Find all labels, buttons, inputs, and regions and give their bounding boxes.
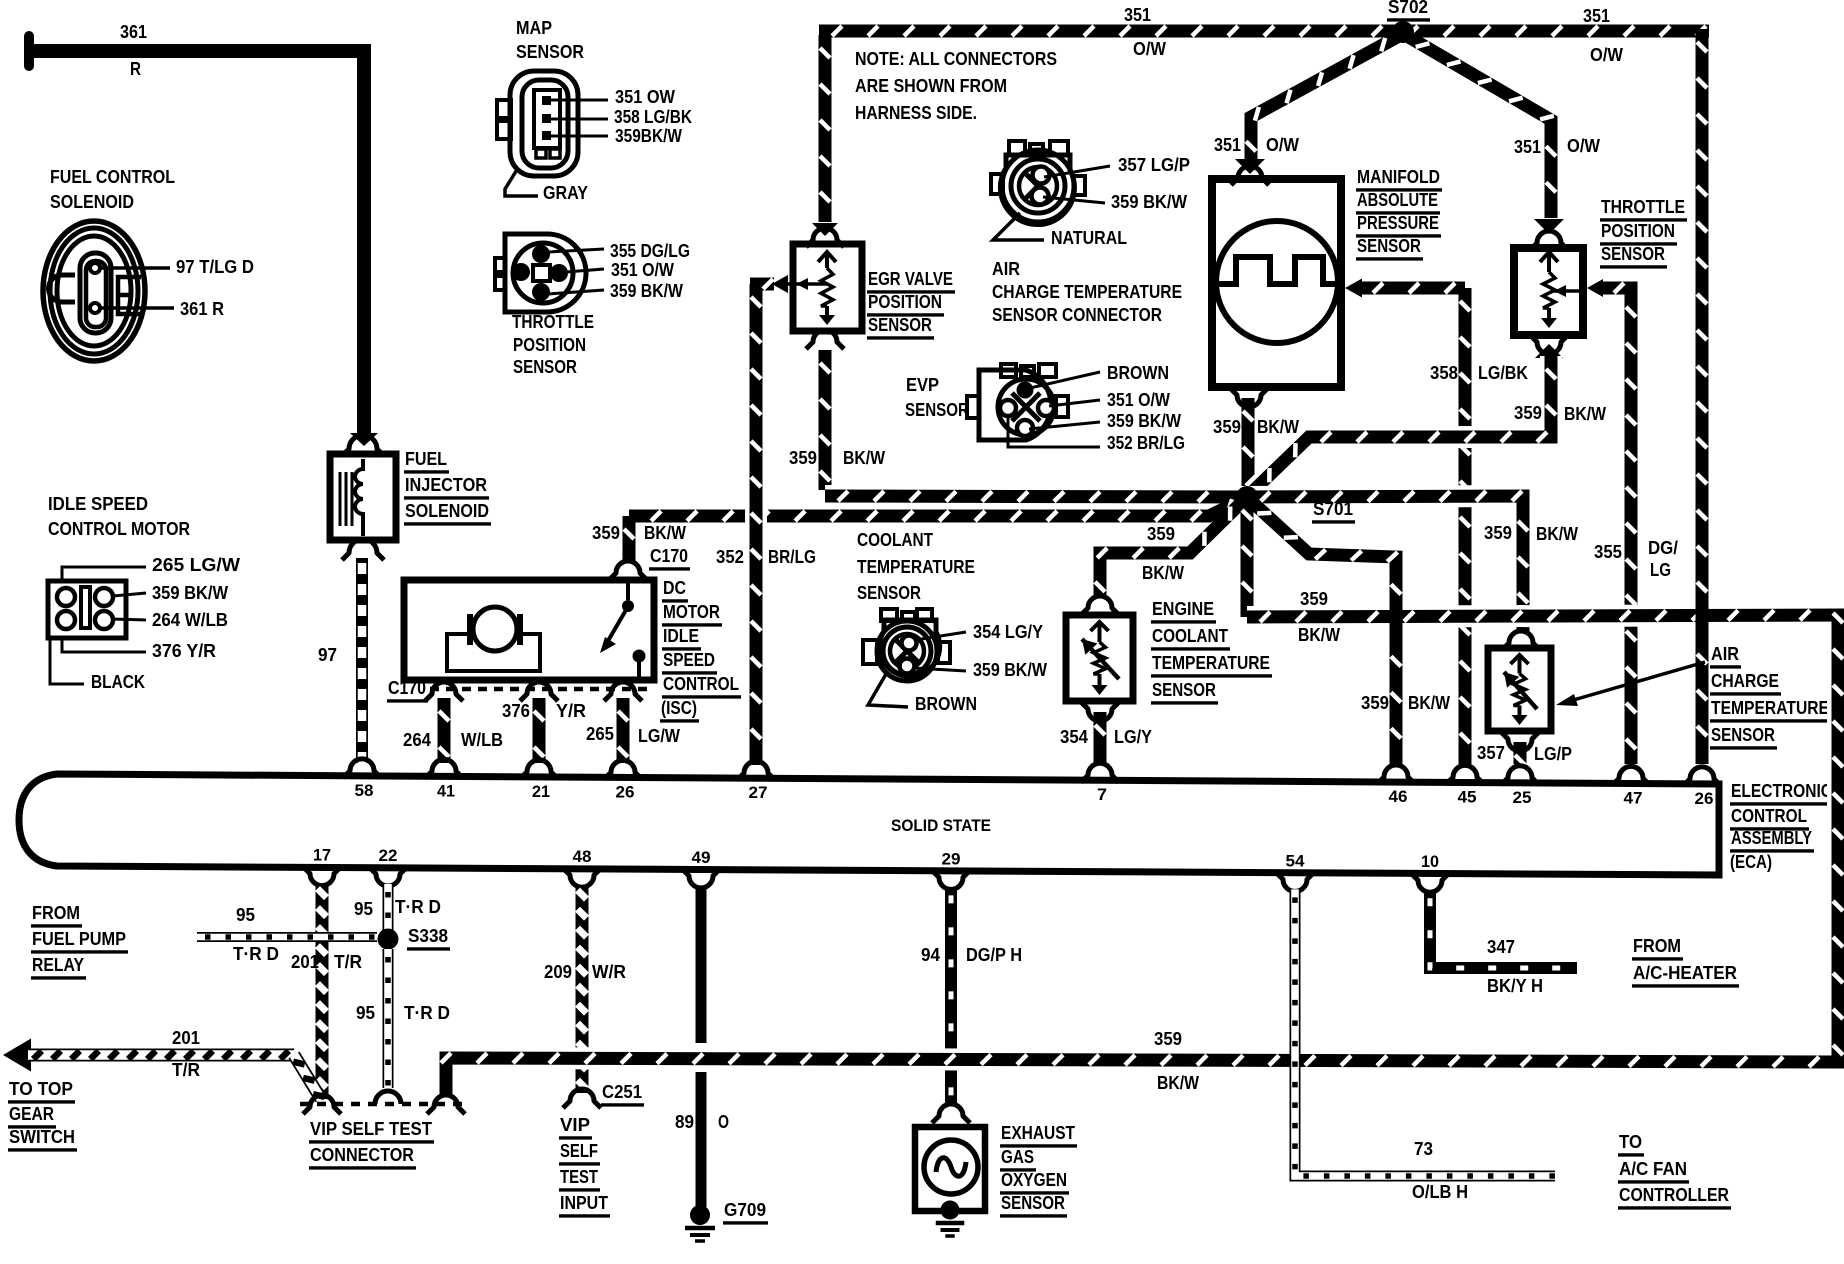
svg-text:22: 22: [379, 846, 398, 865]
ISC motor connector pins: [57, 588, 75, 606]
ISC motor symbol: [473, 607, 517, 651]
svg-text:POSITION: POSITION: [868, 292, 942, 312]
svg-text:27: 27: [749, 783, 768, 802]
svg-text:S702: S702: [1388, 0, 1428, 17]
svg-text:ASSEMBLY: ASSEMBLY: [1731, 828, 1812, 848]
svg-text:T·R D: T·R D: [233, 944, 279, 964]
svg-text:O/W: O/W: [1133, 39, 1166, 59]
MAP sensor connector body: [510, 71, 578, 176]
svg-text:351: 351: [1214, 135, 1241, 155]
svg-text:IDLE: IDLE: [663, 626, 699, 646]
wire 351 O/W arrow into TPS: [1534, 219, 1564, 234]
svg-text:355: 355: [1594, 542, 1622, 562]
svg-text:201: 201: [172, 1028, 200, 1048]
svg-text:COOLANT: COOLANT: [1152, 626, 1228, 646]
lead line 97 T/LG D: [100, 266, 170, 270]
wire 359 BK/W below EGR: [806, 330, 844, 349]
MAP connector key slots: [536, 149, 546, 158]
svg-text:265: 265: [586, 724, 614, 744]
svg-text:BK/W: BK/W: [644, 523, 686, 543]
ECA pin 7 connector: [1081, 763, 1119, 782]
svg-text:C251: C251: [602, 1082, 642, 1102]
ECA pin 47 connector: [1612, 766, 1650, 785]
svg-text:SENSOR: SENSOR: [1711, 725, 1775, 745]
svg-text:CONTROL: CONTROL: [663, 674, 739, 694]
VIP connector pin 95: [375, 1091, 401, 1104]
svg-text:LG/P: LG/P: [1534, 744, 1572, 764]
svg-text:SENSOR: SENSOR: [516, 42, 584, 62]
svg-text:(ECA): (ECA): [1730, 852, 1772, 872]
svg-text:NATURAL: NATURAL: [1051, 228, 1127, 248]
wire 209 W/R ECA pin 48 to C251: [576, 885, 589, 1093]
lead line 351 O/W: [566, 269, 604, 272]
svg-text:TO: TO: [1619, 1132, 1642, 1152]
wire 355 DG/LG to ECA pin 47: [1601, 288, 1631, 764]
ECA pin 17 connector: [303, 867, 341, 886]
svg-text:359 BK/W: 359 BK/W: [973, 660, 1047, 680]
svg-text:SPEED: SPEED: [663, 650, 715, 670]
svg-text:264 W/LB: 264 W/LB: [152, 610, 228, 630]
svg-text:73: 73: [1414, 1139, 1433, 1159]
wire 95 T-R D horizontal from fuel pump relay: [197, 932, 377, 942]
wire 352 BR/LG stub: [750, 278, 774, 291]
svg-text:ENGINE: ENGINE: [1152, 599, 1214, 619]
svg-text:359 BK/W: 359 BK/W: [610, 281, 683, 301]
svg-text:COOLANT: COOLANT: [857, 530, 933, 550]
svg-text:GAS: GAS: [1001, 1147, 1034, 1167]
wire 359 BK/W arrow up into TPS bottom: [1530, 335, 1568, 354]
svg-text:SOLID STATE: SOLID STATE: [891, 816, 991, 835]
svg-text:359: 359: [1147, 524, 1175, 544]
svg-text:CHARGE TEMPERATURE: CHARGE TEMPERATURE: [992, 282, 1182, 302]
svg-text:359 BK/W: 359 BK/W: [1111, 192, 1187, 212]
wire 201 T/R diagonal to VIP pin: [294, 1055, 321, 1099]
svg-text:SENSOR: SENSOR: [868, 315, 932, 335]
wire 359 BK/W below MAP sensor: [1230, 388, 1268, 407]
ACT connector side tabs: [991, 174, 1003, 194]
EVP connector pins: [1017, 382, 1034, 399]
wire 359 BK/W S701 to ACT sensor: [1247, 496, 1523, 633]
BROWN lead line coolant: [868, 674, 908, 707]
wire 357 LG/P to ECA pin 25: [1501, 732, 1539, 751]
svg-text:54: 54: [1286, 851, 1306, 870]
VIP connector pin 359: [427, 1095, 465, 1114]
EGR wiper arrow to wire 352: [772, 275, 788, 293]
air charge temp sensor connector body: [1009, 141, 1025, 155]
wire 95 T-R D S338 down to VIP connector: [383, 949, 394, 1088]
C170 pin connector 264: [425, 682, 463, 701]
wire 361 R vertical to fuel injector solenoid: [357, 44, 371, 433]
svg-text:VIP SELF TEST: VIP SELF TEST: [310, 1119, 432, 1139]
lead line 359 BK/W isc: [113, 593, 146, 596]
svg-text:T·R D: T·R D: [395, 897, 441, 917]
svg-text:29: 29: [942, 849, 961, 868]
svg-text:BROWN: BROWN: [915, 694, 977, 714]
wire 94 DG/P H ECA pin 29 to EGO sensor: [945, 887, 957, 1104]
svg-text:26: 26: [616, 782, 635, 801]
svg-text:AIR: AIR: [1711, 644, 1739, 664]
svg-text:MANIFOLD: MANIFOLD: [1357, 167, 1440, 187]
svg-text:209: 209: [544, 962, 572, 982]
svg-text:O: O: [718, 1112, 729, 1132]
svg-text:26: 26: [1695, 789, 1714, 808]
svg-text:SWITCH: SWITCH: [9, 1127, 75, 1147]
svg-text:358 LG/BK: 358 LG/BK: [614, 107, 692, 127]
fuel injector solenoid box: [330, 454, 396, 540]
svg-text:T/R: T/R: [172, 1060, 200, 1080]
svg-text:EVP: EVP: [906, 375, 939, 395]
svg-text:VIP: VIP: [560, 1115, 590, 1135]
ECA pin 27 connector: [737, 761, 775, 780]
wire 97 below injector: [342, 539, 384, 560]
svg-text:FUEL CONTROL: FUEL CONTROL: [50, 167, 175, 187]
svg-text:352: 352: [716, 547, 744, 567]
lead line 359 BK/W EVP: [1029, 422, 1100, 429]
svg-text:BR/LG: BR/LG: [768, 547, 816, 567]
svg-text:ABSOLUTE: ABSOLUTE: [1357, 190, 1438, 210]
svg-text:BK/W: BK/W: [1142, 563, 1184, 583]
svg-text:94: 94: [921, 945, 940, 965]
svg-text:359: 359: [1154, 1029, 1182, 1049]
svg-text:358: 358: [1430, 363, 1458, 383]
svg-text:351: 351: [1124, 5, 1151, 25]
svg-text:89: 89: [675, 1112, 694, 1132]
VIP connector pin 201: [303, 1095, 341, 1114]
svg-text:TO TOP: TO TOP: [9, 1079, 73, 1099]
svg-text:361: 361: [120, 22, 147, 42]
lead line 265 LG/W: [62, 567, 146, 581]
svg-text:41: 41: [437, 781, 455, 800]
EVP connector side tabs: [967, 396, 979, 418]
svg-text:357: 357: [1477, 743, 1505, 763]
ISC switch symbol: [626, 583, 630, 600]
svg-text:C170: C170: [650, 546, 688, 566]
EVP sensor connector body: [1001, 364, 1016, 377]
svg-text:TEST: TEST: [560, 1167, 598, 1187]
svg-text:SENSOR: SENSOR: [1357, 236, 1421, 256]
svg-text:47: 47: [1624, 788, 1643, 807]
svg-text:SENSOR: SENSOR: [1601, 244, 1665, 264]
C170 pin connector 265: [604, 682, 642, 701]
ECA pin 10 connector: [1411, 873, 1449, 892]
ECA pin 48 connector: [563, 868, 601, 887]
wire 351 O/W right vertical to ECA pin 26: [1696, 29, 1709, 764]
svg-text:T/R: T/R: [334, 952, 362, 972]
lead line 359 BK/W ACT conn: [1043, 197, 1105, 203]
wire 347 BK/Y H pin 10 to A/C heater: [1430, 890, 1577, 968]
svg-text:ARE SHOWN FROM: ARE SHOWN FROM: [855, 76, 1007, 96]
wire 359 BK/W TPS-bottom to S701: [1252, 356, 1551, 492]
svg-text:MOTOR: MOTOR: [663, 602, 720, 622]
wire 351 O/W S702 to TPS diagonal: [1407, 36, 1551, 218]
coolant connector X-cross: [896, 640, 918, 662]
ECA pin 26 connector: [604, 760, 642, 779]
svg-text:45: 45: [1458, 787, 1477, 806]
svg-text:376: 376: [502, 701, 530, 721]
svg-text:EXHAUST: EXHAUST: [1001, 1123, 1075, 1143]
svg-text:201: 201: [291, 952, 319, 972]
wire 359 BK/W drop into ISC box: [623, 516, 636, 562]
wire 355 arrow into TPS right side: [1587, 279, 1603, 297]
svg-text:351 O/W: 351 O/W: [611, 260, 674, 280]
ECA pin 45 connector: [1446, 765, 1484, 784]
wire 351 O/W overlay at bottom-run crossing: [1696, 598, 1709, 636]
svg-text:351: 351: [1583, 6, 1610, 26]
wire 201 T/R arrow to top gear switch: [3, 1039, 31, 1072]
svg-text:POSITION: POSITION: [513, 335, 586, 355]
svg-text:LG/W: LG/W: [638, 726, 680, 746]
svg-text:TEMPERATURE: TEMPERATURE: [857, 557, 975, 577]
MAP sensor circle with square wave: [1216, 221, 1338, 343]
svg-text:SENSOR: SENSOR: [1001, 1193, 1065, 1213]
ECA pin 22 connector: [369, 867, 407, 886]
svg-text:FUEL: FUEL: [405, 449, 447, 469]
svg-text:O/LB H: O/LB H: [1412, 1182, 1468, 1202]
svg-text:354 LG/Y: 354 LG/Y: [973, 622, 1043, 642]
lead line 264 W/LB: [113, 619, 146, 620]
svg-text:BROWN: BROWN: [1107, 363, 1169, 383]
svg-text:95: 95: [236, 905, 255, 925]
svg-text:DG/: DG/: [1648, 538, 1678, 558]
svg-text:265 LG/W: 265 LG/W: [152, 555, 240, 575]
wire 358 LG/BK horizontal from MAP: [1360, 282, 1465, 295]
wire 358 LG/BK vertical to ECA pin 45: [1459, 288, 1472, 764]
svg-text:FROM: FROM: [1633, 936, 1681, 956]
svg-text:361 R: 361 R: [180, 299, 224, 319]
svg-text:95: 95: [354, 899, 373, 919]
svg-text:359 BK/W: 359 BK/W: [152, 583, 228, 603]
wire 351 O/W S702 to MAP diagonal: [1251, 36, 1399, 160]
TPS-left connector tabs: [495, 258, 505, 272]
svg-text:LG: LG: [1650, 560, 1671, 580]
air charge temperature sensor box: [1502, 631, 1540, 650]
svg-text:352 BR/LG: 352 BR/LG: [1107, 433, 1185, 453]
svg-text:R: R: [130, 59, 141, 79]
wire 359 BK/W pin46 overlay at bottom-run crossing: [1390, 598, 1403, 636]
MAP connector left tab: [497, 100, 511, 118]
wire 358 arrow into MAP right side: [1345, 279, 1362, 298]
coolant connector pins: [902, 636, 917, 651]
svg-text:CHARGE: CHARGE: [1711, 671, 1779, 691]
svg-text:355 DG/LG: 355 DG/LG: [610, 241, 690, 261]
svg-text:BK/W: BK/W: [1257, 417, 1299, 437]
svg-text:359BK/W: 359BK/W: [615, 126, 682, 146]
svg-text:CONTROL MOTOR: CONTROL MOTOR: [48, 519, 190, 539]
lead line 358 LG/BK: [551, 118, 608, 121]
svg-text:10: 10: [1421, 852, 1439, 871]
wire pin 54 to A/C fan controller: [1295, 889, 1555, 1176]
lead line BLACK: [50, 638, 84, 684]
ECA pin 25 connector: [1501, 766, 1539, 785]
fuel injector solenoid coil: [339, 472, 342, 526]
svg-text:S701: S701: [1313, 499, 1353, 519]
svg-text:SENSOR: SENSOR: [905, 400, 969, 420]
svg-text:359 BK/W: 359 BK/W: [1107, 411, 1181, 431]
svg-text:ELECTRONIC: ELECTRONIC: [1731, 781, 1832, 801]
wire 359 BK/W S701 down: [1241, 497, 1254, 617]
svg-text:INJECTOR: INJECTOR: [405, 475, 487, 495]
ACT sensor pointer arrow: [1563, 662, 1705, 703]
svg-text:LG/BK: LG/BK: [1478, 363, 1528, 383]
svg-text:POSITION: POSITION: [1601, 221, 1675, 241]
GRAY lead line: [505, 168, 538, 196]
svg-text:264: 264: [403, 730, 431, 750]
svg-text:95: 95: [356, 1003, 375, 1023]
svg-text:351 OW: 351 OW: [615, 87, 675, 107]
svg-text:DG/P H: DG/P H: [966, 945, 1022, 965]
svg-text:HARNESS SIDE.: HARNESS SIDE.: [855, 103, 977, 123]
lead line 354 LG/Y conn: [915, 632, 966, 640]
wire 264 W/LB to ECA pin 41: [438, 698, 451, 763]
svg-text:FROM: FROM: [32, 903, 80, 923]
fuel control solenoid connector: [43, 221, 145, 361]
wire 359 BK/W S701 to ISC (C170): [629, 498, 1246, 516]
svg-text:CONTROLLER: CONTROLLER: [1619, 1185, 1729, 1205]
svg-text:376 Y/R: 376 Y/R: [152, 641, 216, 661]
svg-text:SENSOR: SENSOR: [857, 583, 921, 603]
svg-text:BK/W: BK/W: [1408, 693, 1450, 713]
svg-text:BK/W: BK/W: [1536, 524, 1578, 544]
EGR wiper line: [780, 282, 827, 286]
svg-text:BLACK: BLACK: [91, 672, 145, 692]
svg-text:SOLENOID: SOLENOID: [50, 192, 134, 212]
svg-text:21: 21: [532, 782, 550, 801]
svg-text:THROTTLE: THROTTLE: [1601, 197, 1685, 217]
NATURAL lead line: [993, 213, 1044, 240]
svg-text:W/LB: W/LB: [461, 730, 503, 750]
ECA pin 54 connector: [1276, 872, 1314, 891]
lead line 359 BK/W: [548, 290, 604, 294]
svg-text:46: 46: [1389, 787, 1408, 806]
lead line BROWN EVP: [1030, 372, 1100, 388]
ECA pin 49 connector: [682, 869, 720, 888]
VIP self test connector dashed line: [300, 1102, 462, 1107]
electronic control assembly (ECA) box: [19, 774, 1719, 875]
svg-text:O/W: O/W: [1590, 45, 1623, 65]
ground G709: [690, 1205, 710, 1225]
svg-text:A/C FAN: A/C FAN: [1619, 1159, 1687, 1179]
C170 connector dashed line: [430, 687, 652, 692]
svg-text:EGR VALVE: EGR VALVE: [868, 269, 953, 289]
wire 359 BK/W EGR-bottom to S701 horizontal: [825, 496, 1247, 497]
lead line 351 OW: [551, 99, 608, 102]
MAP connector pins: [542, 96, 551, 105]
svg-text:BK/W: BK/W: [1298, 625, 1340, 645]
wire 354 LG/Y to ECA pin 7: [1081, 702, 1119, 721]
throttle position sensor connector (left) body: [505, 234, 586, 312]
wire 95 T-R D ECA pin 22 to S338: [383, 884, 394, 930]
EGO sensor ground: [941, 1201, 960, 1220]
manifold absolute pressure sensor box: [1212, 179, 1341, 387]
svg-text:PRESSURE: PRESSURE: [1357, 213, 1439, 233]
wire 351 O/W down to EGR sensor: [819, 35, 832, 222]
svg-text:7: 7: [1097, 785, 1107, 804]
lead line 355 DG/LG: [548, 249, 604, 252]
svg-text:S338: S338: [408, 926, 448, 946]
ECA pin 21 connector: [520, 760, 558, 779]
svg-text:351: 351: [1514, 137, 1541, 157]
node S701 junction dot: [1236, 486, 1258, 508]
lead line 361 R: [100, 306, 174, 310]
wire 351 O/W top horizontal: [819, 25, 1709, 38]
engine coolant temperature sensor box: [1066, 615, 1133, 701]
svg-text:359: 359: [1484, 523, 1512, 543]
lead line 359BK/W: [551, 135, 608, 138]
svg-text:O/W: O/W: [1266, 135, 1299, 155]
svg-text:W/R: W/R: [592, 962, 626, 982]
wire 361 R horizontal: [24, 44, 364, 58]
lead line 352 BR/LG EVP: [1008, 416, 1100, 447]
ISC motor connector body: [48, 581, 126, 638]
svg-text:SOLENOID: SOLENOID: [405, 501, 489, 521]
svg-text:SENSOR CONNECTOR: SENSOR CONNECTOR: [992, 305, 1162, 325]
node S702 junction dot: [1392, 21, 1414, 43]
svg-text:LG/Y: LG/Y: [1114, 727, 1152, 747]
svg-text:354: 354: [1060, 727, 1088, 747]
EGR valve position sensor box: [793, 244, 862, 331]
EVP connector X-cross: [1012, 393, 1040, 421]
svg-text:BK/Y H: BK/Y H: [1487, 976, 1543, 996]
coolant temp sensor connector body: [881, 609, 897, 621]
lead line 357 LG/P: [1044, 166, 1110, 177]
wire 359 BK/W S701 to ECA pin 46: [1251, 501, 1396, 764]
wire 359 BK/W S701 to engine coolant temp sensor: [1100, 501, 1243, 598]
wire 352 BR/LG stub redraw: [750, 278, 772, 291]
wire 361 R terminal: [24, 36, 34, 66]
svg-text:CONTROL: CONTROL: [1731, 806, 1807, 826]
ECA pin 26 connector: [1683, 767, 1721, 786]
wire 351 O/W arrow into MAP sensor: [1235, 159, 1265, 174]
svg-text:DC: DC: [663, 578, 686, 598]
throttle position sensor (right) box: [1514, 248, 1583, 335]
svg-text:48: 48: [573, 847, 592, 866]
svg-text:NOTE: ALL CONNECTORS: NOTE: ALL CONNECTORS: [855, 49, 1057, 69]
svg-text:SENSOR: SENSOR: [1152, 680, 1216, 700]
svg-text:C170: C170: [388, 678, 426, 698]
fuel control solenoid pin 361: [90, 303, 100, 313]
svg-text:A/C-HEATER: A/C-HEATER: [1633, 963, 1737, 983]
svg-text:359: 359: [789, 448, 817, 468]
svg-text:97: 97: [318, 645, 337, 665]
svg-text:FUEL PUMP: FUEL PUMP: [32, 929, 126, 949]
svg-text:THROTTLE: THROTTLE: [512, 312, 594, 332]
svg-text:359: 359: [1514, 403, 1542, 423]
wire 352 BR/LG vertical to ECA pin 27 (over): [745, 284, 767, 765]
TPS-left connector pins: [532, 245, 550, 263]
wire 89 O ECA pin 49 to ground G709: [696, 886, 707, 1043]
exhaust gas oxygen sensor box: [915, 1127, 985, 1211]
svg-text:GEAR: GEAR: [9, 1104, 54, 1124]
svg-text:359: 359: [1213, 417, 1241, 437]
lead line 351 O/W EVP: [1049, 400, 1100, 406]
svg-text:SELF: SELF: [560, 1141, 598, 1161]
svg-text:CONNECTOR: CONNECTOR: [310, 1145, 414, 1165]
C170 pin connector 376: [520, 682, 558, 701]
svg-text:BK/W: BK/W: [843, 448, 885, 468]
EGR potentiometer symbol: [818, 252, 836, 262]
fuel control solenoid pin 97: [90, 263, 100, 273]
ECA pin 41 connector: [425, 759, 463, 778]
coolant connector side tabs: [863, 640, 877, 664]
svg-text:359: 359: [592, 523, 620, 543]
svg-text:BK/W: BK/W: [1157, 1073, 1199, 1093]
TPS-right potentiometer symbol: [1540, 252, 1558, 262]
svg-text:58: 58: [355, 781, 374, 800]
svg-text:347: 347: [1487, 937, 1515, 957]
svg-text:OXYGEN: OXYGEN: [1001, 1170, 1067, 1190]
svg-text:G709: G709: [724, 1200, 766, 1220]
lead line 376 Y/R: [62, 638, 146, 652]
